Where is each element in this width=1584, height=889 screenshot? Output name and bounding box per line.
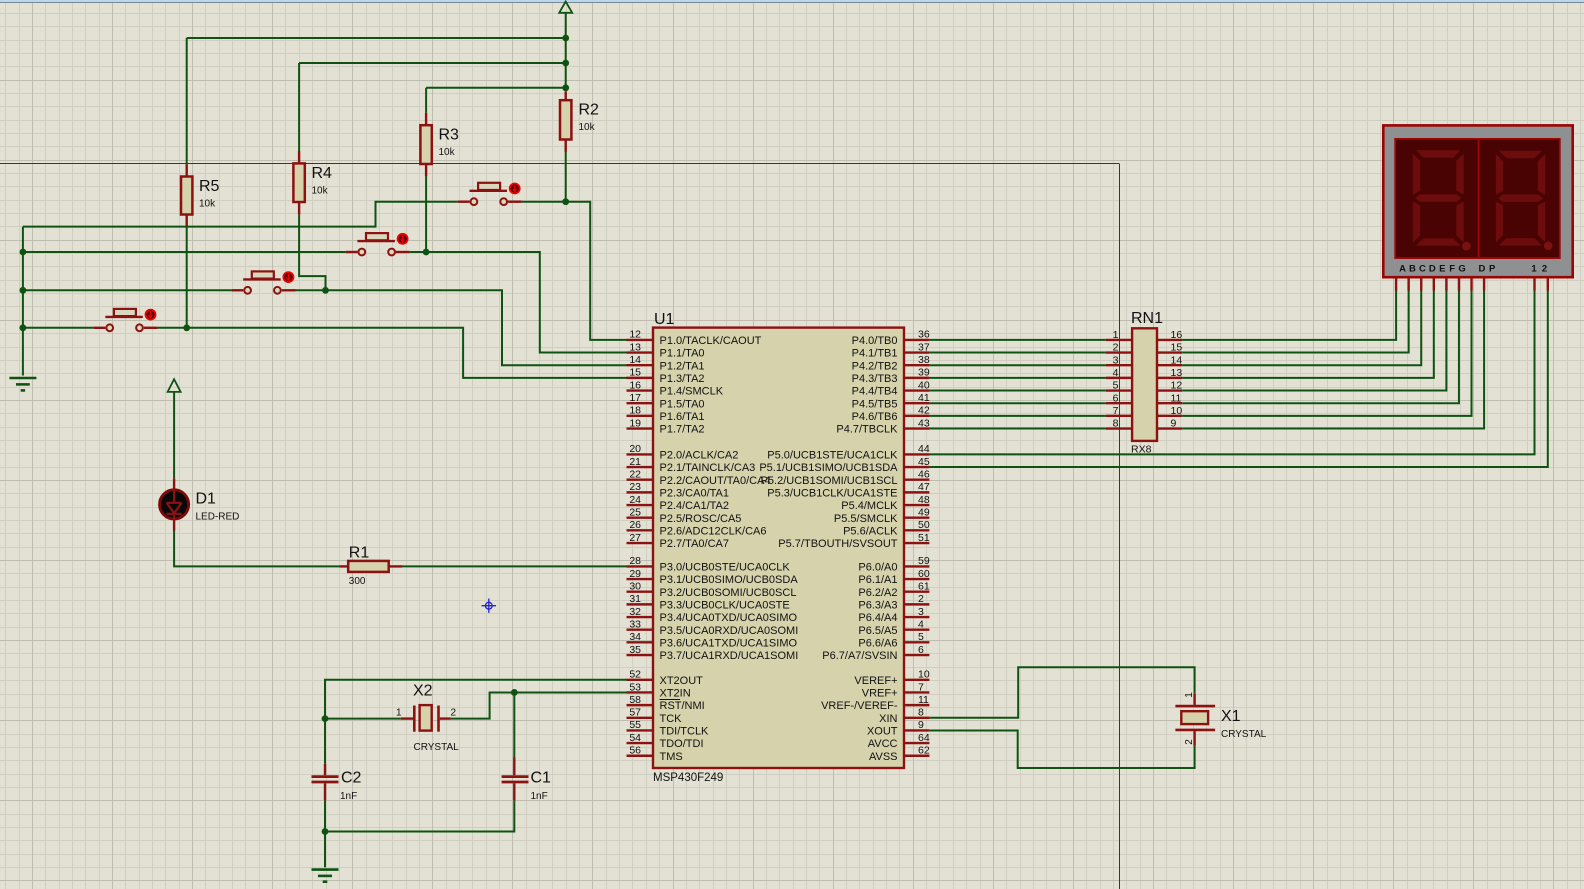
U1 pin 10 (VEREF+) xyxy=(904,679,929,681)
wire U1 pin 40 to RN1 pin 5 xyxy=(929,390,1105,392)
U1 pin 18 (P1.6/TA1) xyxy=(627,415,654,417)
U1 pin 20 (P2.0/ACLK/CA2) xyxy=(627,453,654,455)
junction row2/R3 xyxy=(423,249,430,256)
svg-text:XIN: XIN xyxy=(879,713,897,725)
svg-text:G: G xyxy=(1458,264,1465,275)
svg-text:300: 300 xyxy=(349,576,366,587)
svg-text:XT2IN: XT2IN xyxy=(660,688,691,700)
svg-text:19: 19 xyxy=(629,417,641,429)
7-seg pin G xyxy=(1470,277,1472,290)
svg-text:XOUT: XOUT xyxy=(867,726,898,738)
U1 pin 36 (P4.0/TB0) xyxy=(904,339,929,341)
svg-text:10: 10 xyxy=(918,669,930,681)
wire 7-seg G to RN1 pin 10 xyxy=(1182,291,1471,416)
svg-text:57: 57 xyxy=(629,707,641,719)
U1 pin 31 (P3.3/UCB0CLK/UCA0STE) xyxy=(627,603,654,605)
wire X2 pin1 xyxy=(325,718,401,720)
wire VCC to R5 column xyxy=(187,37,566,39)
U1 pin 60 (P6.1/A1) xyxy=(904,578,929,580)
svg-text:27: 27 xyxy=(629,532,641,544)
wire 7-seg F to RN1 pin 11 xyxy=(1182,291,1459,404)
wire row1 to U1 pin 12 xyxy=(566,202,627,340)
RN1 pin 11 xyxy=(1157,402,1182,404)
U1 pin 33 (P3.5/UCA0RXD/UCA0SOMI) xyxy=(627,629,654,631)
svg-text:13: 13 xyxy=(629,341,641,353)
svg-text:CRYSTAL: CRYSTAL xyxy=(414,742,460,753)
svg-text:R2: R2 xyxy=(579,102,600,119)
U1 pin 55 (TDI/TCLK) xyxy=(627,729,654,731)
svg-text:VEREF+: VEREF+ xyxy=(854,675,897,687)
svg-text:31: 31 xyxy=(629,593,641,605)
wire C1 to ground rail xyxy=(325,801,514,832)
svg-text:10: 10 xyxy=(1171,405,1183,417)
svg-text:TMS: TMS xyxy=(660,751,683,763)
svg-text:2: 2 xyxy=(451,708,457,719)
U1 pin 64 (AVCC) xyxy=(904,742,929,744)
svg-text:R5: R5 xyxy=(199,178,220,195)
7-seg pin F xyxy=(1458,277,1460,290)
svg-text:TDI/TCLK: TDI/TCLK xyxy=(660,726,710,738)
wire VCC to R3 column xyxy=(426,87,566,89)
svg-text:24: 24 xyxy=(629,494,641,506)
push button SW1 xyxy=(94,327,106,329)
svg-text:P1.5/TA0: P1.5/TA0 xyxy=(660,398,705,410)
svg-text:25: 25 xyxy=(629,507,641,519)
svg-text:12: 12 xyxy=(1171,380,1183,392)
resistor R2 xyxy=(565,92,567,101)
svg-text:29: 29 xyxy=(629,568,641,580)
svg-text:12: 12 xyxy=(629,329,641,341)
svg-text:30: 30 xyxy=(629,581,641,593)
wire R3 to row2 xyxy=(425,176,427,252)
svg-text:10k: 10k xyxy=(579,122,596,133)
svg-text:P3.5/UCA0RXD/UCA0SOMI: P3.5/UCA0RXD/UCA0SOMI xyxy=(660,625,799,637)
U1 pin 47 (P5.3/UCB1CLK/UCA1STE) xyxy=(904,491,929,493)
wire VCC to R4 column xyxy=(299,62,566,64)
wire U1 pin 43 to RN1 pin 8 xyxy=(929,428,1105,430)
U1 pin 62 (AVSS) xyxy=(904,755,929,757)
svg-text:16: 16 xyxy=(629,379,641,391)
svg-text:XT2OUT: XT2OUT xyxy=(660,675,704,687)
RN1 pin 16 xyxy=(1157,339,1182,341)
svg-text:33: 33 xyxy=(629,619,641,631)
resistor R3 xyxy=(425,113,427,125)
svg-text:P5.3/UCB1CLK/UCA1STE: P5.3/UCB1CLK/UCA1STE xyxy=(767,487,897,499)
resistor R5 xyxy=(185,164,187,176)
U1 pin 12 (P1.0/TACLK/CAOUT) xyxy=(627,339,654,341)
capacitor C2 xyxy=(324,719,326,764)
7-seg pin 2 xyxy=(1547,277,1549,290)
svg-text:P3.2/UCB0SOMI/UCB0SCL: P3.2/UCB0SOMI/UCB0SCL xyxy=(660,587,797,599)
wire VCC to D1 xyxy=(173,392,175,479)
svg-text:P4.2/TB2: P4.2/TB2 xyxy=(852,360,898,372)
svg-text:22: 22 xyxy=(629,469,641,481)
junction bus/row3 xyxy=(20,287,27,294)
svg-text:P5.1/UCB1SIMO/UCB1SDA: P5.1/UCB1SIMO/UCB1SDA xyxy=(759,462,898,474)
resistor R1 xyxy=(339,565,348,567)
svg-text:17: 17 xyxy=(629,392,641,404)
RN1 pin 12 xyxy=(1157,389,1182,391)
svg-text:X1: X1 xyxy=(1221,708,1241,725)
svg-text:53: 53 xyxy=(629,681,641,693)
U1 pin 38 (P4.2/TB2) xyxy=(904,364,929,366)
wire VCC rail vertical xyxy=(565,13,567,92)
ground symbol bottom xyxy=(312,868,339,871)
U1 pin 24 (P2.4/CA1/TA2) xyxy=(627,504,654,506)
U1 pin 56 (TMS) xyxy=(627,755,654,757)
capacitor C1 xyxy=(513,692,515,757)
svg-text:MSP430F249: MSP430F249 xyxy=(653,772,723,784)
sheet border right edge xyxy=(1119,164,1121,889)
wire row4 left segment xyxy=(23,327,94,329)
RN1 pin 10 xyxy=(1157,415,1182,417)
svg-text:50: 50 xyxy=(918,519,930,531)
wire row1 button to R2 column xyxy=(522,201,566,203)
svg-text:P6.5/A5: P6.5/A5 xyxy=(858,625,897,637)
svg-text:49: 49 xyxy=(918,507,930,519)
wire U1 pin 41 to RN1 pin 6 xyxy=(929,402,1105,404)
U1 pin 13 (P1.1/TA0) xyxy=(627,351,654,353)
U1 pin 22 (P2.2/CAOUT/TA0/CA4) xyxy=(627,479,654,481)
svg-text:7: 7 xyxy=(1113,405,1119,417)
wire U1 pin 42 to RN1 pin 7 xyxy=(929,415,1105,417)
U1 pin 3 (P6.4/A4) xyxy=(904,616,929,618)
svg-text:D1: D1 xyxy=(196,491,217,508)
svg-text:U1: U1 xyxy=(654,311,675,328)
wire X1 pin2 to U1 pin 9 (XOUT) xyxy=(929,730,1194,768)
U1 pin 19 (P1.7/TA2) xyxy=(627,427,654,429)
svg-text:P1.4/SMCLK: P1.4/SMCLK xyxy=(660,386,724,398)
7-seg digit 1 xyxy=(1414,150,1463,159)
svg-text:4: 4 xyxy=(1113,367,1119,379)
svg-text:5: 5 xyxy=(918,631,924,643)
svg-text:C2: C2 xyxy=(341,770,362,787)
svg-text:P3.6/UCA1TXD/UCA1SIMO: P3.6/UCA1TXD/UCA1SIMO xyxy=(660,637,798,649)
U1 pin 61 (P6.2/A2) xyxy=(904,591,929,593)
RN1 pin 4 xyxy=(1106,377,1132,379)
U1 pin 53 (XT2IN) xyxy=(627,691,654,693)
svg-text:1: 1 xyxy=(1113,329,1119,341)
U1 pin 52 (XT2OUT) xyxy=(627,679,654,681)
svg-text:41: 41 xyxy=(918,392,930,404)
svg-text:5: 5 xyxy=(1113,380,1119,392)
svg-text:P2.6/ADC12CLK/CA6: P2.6/ADC12CLK/CA6 xyxy=(660,525,767,537)
junction ground rail xyxy=(322,828,329,835)
digit separator xyxy=(1478,140,1480,257)
svg-text:P3.4/UCA0TXD/UCA0SIMO: P3.4/UCA0TXD/UCA0SIMO xyxy=(660,612,798,624)
svg-text:14: 14 xyxy=(1171,354,1183,366)
U1 pin 48 (P5.4/MCLK) xyxy=(904,504,929,506)
wire to ground symbol xyxy=(324,832,326,868)
svg-text:9: 9 xyxy=(1171,418,1177,430)
svg-text:3: 3 xyxy=(1113,354,1119,366)
7-seg pin B xyxy=(1407,277,1409,290)
U1 pin 29 (P3.1/UCB0SIMO/UCB0SDA) xyxy=(627,578,654,580)
svg-text:P2.3/CA0/TA1: P2.3/CA0/TA1 xyxy=(660,487,730,499)
U1 pin 50 (P5.6/ACLK) xyxy=(904,529,929,531)
RN1 pin 7 xyxy=(1106,415,1132,417)
svg-text:3: 3 xyxy=(918,606,924,618)
U1 pin 45 (P5.1/UCB1SIMO/UCB1SDA) xyxy=(904,466,929,468)
svg-text:A: A xyxy=(1399,264,1406,275)
crystal X1 xyxy=(1193,694,1195,705)
svg-text:8: 8 xyxy=(1113,418,1119,430)
origin marker crosshair xyxy=(482,599,496,613)
svg-text:P3.3/UCB0CLK/UCA0STE: P3.3/UCB0CLK/UCA0STE xyxy=(660,599,790,611)
svg-text:26: 26 xyxy=(629,519,641,531)
svg-text:R4: R4 xyxy=(312,165,333,182)
wire ground bus left xyxy=(22,227,24,376)
svg-text:TCK: TCK xyxy=(660,713,683,725)
RN1 pin 9 xyxy=(1157,427,1182,429)
wire VCC branch down to R3 xyxy=(425,88,427,113)
U1 pin 54 (TDO/TDI) xyxy=(627,742,654,744)
svg-text:62: 62 xyxy=(918,745,930,757)
svg-text:CRYSTAL: CRYSTAL xyxy=(1221,729,1267,740)
svg-text:8: 8 xyxy=(918,707,924,719)
wire row2 left segment xyxy=(23,251,346,253)
svg-text:6: 6 xyxy=(918,644,924,656)
resistor R4 xyxy=(298,151,300,163)
U1 pin 51 (P5.7/TBOUTH/SVSOUT) xyxy=(904,542,929,544)
svg-text:P6.2/A2: P6.2/A2 xyxy=(858,587,897,599)
svg-text:61: 61 xyxy=(918,581,930,593)
wire R5 to row4 xyxy=(186,227,188,328)
junction bus/row4 xyxy=(20,324,27,331)
wire 7-seg E to RN1 pin 12 xyxy=(1182,291,1446,391)
wire C2 to ground rail xyxy=(324,801,326,832)
svg-text:52: 52 xyxy=(629,669,641,681)
junction VCC/R3 branch xyxy=(562,84,569,91)
svg-text:P3.7/UCA1RXD/UCA1SOMI: P3.7/UCA1RXD/UCA1SOMI xyxy=(660,650,799,662)
svg-text:58: 58 xyxy=(629,694,641,706)
svg-text:1: 1 xyxy=(1531,264,1537,275)
svg-text:C: C xyxy=(1419,264,1426,275)
svg-text:P4.3/TB3: P4.3/TB3 xyxy=(852,373,898,385)
wire row3 left segment xyxy=(23,289,232,291)
svg-text:51: 51 xyxy=(918,532,930,544)
wire U1 pin 39 to RN1 pin 4 xyxy=(929,377,1105,379)
svg-text:16: 16 xyxy=(1171,329,1183,341)
RN1 pin 3 xyxy=(1106,364,1132,366)
wire U1 pin 36 to RN1 pin 1 xyxy=(929,339,1105,341)
U1 pin 27 (P2.7/TA0/CA7) xyxy=(627,542,654,544)
svg-text:34: 34 xyxy=(629,631,641,643)
wire VCC branch down to R4 xyxy=(298,63,300,151)
svg-text:VREF+: VREF+ xyxy=(862,688,898,700)
wire row3 button to R4 junction xyxy=(296,289,326,291)
sheet border top edge xyxy=(0,163,1119,165)
svg-text:P6.7/A7/SVSIN: P6.7/A7/SVSIN xyxy=(822,650,897,662)
svg-text:48: 48 xyxy=(918,494,930,506)
svg-text:P1.2/TA1: P1.2/TA1 xyxy=(660,360,705,372)
junction C1 branch xyxy=(511,689,518,696)
wire row4 to U1 pin 15 xyxy=(187,328,627,378)
U1 pin 25 (P2.5/ROSC/CA5) xyxy=(627,517,654,519)
U1 pin 9 (XOUT) xyxy=(904,729,929,731)
7-seg pin DP xyxy=(1483,277,1485,290)
7-seg pin A xyxy=(1395,277,1397,290)
U1 pin 4 (P6.5/A5) xyxy=(904,629,929,631)
7-segment display bezel xyxy=(1383,125,1572,277)
svg-text:P5.2/UCB1SOMI/UCB1SCL: P5.2/UCB1SOMI/UCB1SCL xyxy=(761,475,898,487)
svg-text:39: 39 xyxy=(918,367,930,379)
wire U1 pin 44 to 7-seg pin 1 xyxy=(929,291,1534,455)
svg-text:40: 40 xyxy=(918,379,930,391)
U1 pin 7 (VREF+) xyxy=(904,691,929,693)
svg-text:P5.6/ACLK: P5.6/ACLK xyxy=(843,525,898,537)
U1 pin 14 (P1.2/TA1) xyxy=(627,364,654,366)
RN1 pin 14 xyxy=(1157,364,1182,366)
svg-text:P4.1/TB1: P4.1/TB1 xyxy=(852,348,898,360)
svg-text:P4.6/TB6: P4.6/TB6 xyxy=(852,411,898,423)
RN1 pin 8 xyxy=(1106,427,1132,429)
svg-text:46: 46 xyxy=(918,469,930,481)
wire 7-seg B to RN1 pin 15 xyxy=(1182,291,1408,353)
svg-text:14: 14 xyxy=(629,354,641,366)
LED D1 xyxy=(173,478,175,489)
7-seg pin D xyxy=(1433,277,1435,290)
svg-text:44: 44 xyxy=(918,443,930,455)
wire VCC branch down to R5 xyxy=(186,38,188,164)
svg-text:VREF-/VEREF-: VREF-/VEREF- xyxy=(821,700,898,712)
svg-text:P1.7/TA2: P1.7/TA2 xyxy=(660,424,705,436)
U1 pin 40 (P4.4/TB4) xyxy=(904,389,929,391)
U1 pin 11 (VREF-/VEREF-) xyxy=(904,704,929,706)
7-seg pin E xyxy=(1445,277,1447,290)
svg-text:21: 21 xyxy=(629,456,641,468)
U1 pin 35 (P3.7/UCA1RXD/UCA1SOMI) xyxy=(627,654,654,656)
svg-text:P6.3/A3: P6.3/A3 xyxy=(858,599,897,611)
U1 pin 34 (P3.6/UCA1TXD/UCA1SIMO) xyxy=(627,641,654,643)
resistor network RN1 body xyxy=(1132,328,1157,441)
U1 pin 21 (P2.1/TAINCLK/CA3) xyxy=(627,466,654,468)
svg-text:P5.7/TBOUTH/SVSOUT: P5.7/TBOUTH/SVSOUT xyxy=(778,538,897,550)
7-segment display inner panel xyxy=(1395,139,1560,258)
wire row4 button to R5 junction xyxy=(158,327,187,329)
svg-text:6: 6 xyxy=(1113,392,1119,404)
svg-text:P6.1/A1: P6.1/A1 xyxy=(858,574,897,586)
U1 pin 42 (P4.6/TB6) xyxy=(904,415,929,417)
svg-text:C1: C1 xyxy=(531,770,552,787)
svg-text:P4.4/TB4: P4.4/TB4 xyxy=(852,386,898,398)
svg-text:2: 2 xyxy=(1542,264,1547,275)
svg-text:B: B xyxy=(1409,264,1416,275)
wire 7-seg DP to RN1 pin 9 xyxy=(1182,291,1484,429)
wire U1 pin 8 (XIN) to X1 pin1 xyxy=(929,667,1194,717)
svg-text:47: 47 xyxy=(918,481,930,493)
svg-text:32: 32 xyxy=(629,606,641,618)
svg-text:54: 54 xyxy=(629,732,641,744)
svg-text:18: 18 xyxy=(629,405,641,417)
U1 pin 26 (P2.6/ADC12CLK/CA6) xyxy=(627,529,654,531)
U1 pin 15 (P1.3/TA2) xyxy=(627,377,654,379)
junction bus/row2 xyxy=(20,249,27,256)
svg-text:P2.2/CAOUT/TA0/CA4: P2.2/CAOUT/TA0/CA4 xyxy=(660,475,771,487)
svg-text:38: 38 xyxy=(918,354,930,366)
wire 7-seg C to RN1 pin 14 xyxy=(1182,291,1421,366)
svg-text:P2.4/CA1/TA2: P2.4/CA1/TA2 xyxy=(660,500,730,512)
crystal X2 xyxy=(401,717,413,719)
wire R2 to row1 xyxy=(565,152,567,202)
wire U1 pin 38 to RN1 pin 3 xyxy=(929,364,1105,366)
svg-text:P3.0/UCB0STE/UCA0CLK: P3.0/UCB0STE/UCA0CLK xyxy=(660,562,791,574)
svg-text:2: 2 xyxy=(1113,342,1119,354)
svg-text:10k: 10k xyxy=(439,147,456,158)
U1 pin 41 (P4.5/TB5) xyxy=(904,402,929,404)
wire row2 button to R3 junction xyxy=(410,251,426,253)
RN1 pin 15 xyxy=(1157,351,1182,353)
svg-text:37: 37 xyxy=(918,341,930,353)
svg-text:43: 43 xyxy=(918,417,930,429)
svg-text:P2.0/ACLK/CA2: P2.0/ACLK/CA2 xyxy=(660,450,739,462)
junction row3/R4 xyxy=(322,287,329,294)
svg-text:11: 11 xyxy=(918,694,929,706)
U1 pin 16 (P1.4/SMCLK) xyxy=(627,389,654,391)
U1 pin 28 (P3.0/UCB0STE/UCA0CLK) xyxy=(627,565,654,567)
svg-text:P6.4/A4: P6.4/A4 xyxy=(858,612,897,624)
wire U1 pin 52 to X2 xyxy=(325,680,627,719)
svg-text:P3.1/UCB0SIMO/UCB0SDA: P3.1/UCB0SIMO/UCB0SDA xyxy=(660,574,799,586)
svg-text:P5.4/MCLK: P5.4/MCLK xyxy=(841,500,898,512)
RN1 pin 2 xyxy=(1106,351,1132,353)
op-amp U1 MSP430F249 body xyxy=(653,328,904,768)
svg-text:15: 15 xyxy=(629,367,641,379)
wire X2 pin2 to U1 pin 53 xyxy=(451,692,627,718)
wire row2 to U1 pin 13 xyxy=(426,252,626,353)
svg-text:F: F xyxy=(1449,264,1455,275)
svg-text:45: 45 xyxy=(918,456,930,468)
svg-text:36: 36 xyxy=(918,329,930,341)
U1 pin 5 (P6.6/A6) xyxy=(904,641,929,643)
svg-text:11: 11 xyxy=(1171,392,1182,404)
push button SW4 xyxy=(458,200,470,202)
U1 pin 46 (P5.2/UCB1SOMI/UCB1SCL) xyxy=(904,479,929,481)
svg-text:P5.0/UCB1STE/UCA1CLK: P5.0/UCB1STE/UCA1CLK xyxy=(767,450,898,462)
svg-text:15: 15 xyxy=(1171,342,1183,354)
svg-text:P1.0/TACLK/CAOUT: P1.0/TACLK/CAOUT xyxy=(660,335,762,347)
svg-text:AVSS: AVSS xyxy=(869,751,898,763)
U1 pin 37 (P4.1/TB1) xyxy=(904,351,929,353)
wire row1 left segment xyxy=(23,202,458,227)
7-seg digit 2 xyxy=(1497,150,1544,159)
svg-text:64: 64 xyxy=(918,732,930,744)
U1 pin 32 (P3.4/UCA0TXD/UCA0SIMO) xyxy=(627,616,654,618)
U1 pin 2 (P6.3/A3) xyxy=(904,603,929,605)
svg-text:P4.5/TB5: P4.5/TB5 xyxy=(852,398,898,410)
U1 pin 58 (RST/NMI) xyxy=(627,704,654,706)
svg-text:LED-RED: LED-RED xyxy=(196,512,240,523)
wire R1 to U1 pin 28 xyxy=(402,565,627,567)
svg-text:60: 60 xyxy=(918,568,930,580)
U1 pin 43 (P4.7/TBCLK) xyxy=(904,427,929,429)
RN1 pin 13 xyxy=(1157,377,1182,379)
svg-text:1nF: 1nF xyxy=(340,791,357,802)
wire D1 to R1 xyxy=(174,531,339,567)
svg-text:1nF: 1nF xyxy=(531,791,548,802)
U1 pin 59 (P6.0/A0) xyxy=(904,565,929,567)
push button SW3 xyxy=(346,251,358,253)
svg-text:2: 2 xyxy=(1184,739,1195,745)
power symbol VCC arrow top xyxy=(559,2,572,13)
svg-text:RN1: RN1 xyxy=(1131,310,1163,327)
svg-text:9: 9 xyxy=(918,719,924,731)
svg-text:X2: X2 xyxy=(413,683,433,700)
svg-text:P1.6/TA1: P1.6/TA1 xyxy=(660,411,705,423)
U1 pin 49 (P5.5/SMCLK) xyxy=(904,517,929,519)
svg-text:P2.1/TAINCLK/CA3: P2.1/TAINCLK/CA3 xyxy=(660,462,756,474)
RN1 pin 5 xyxy=(1106,389,1132,391)
